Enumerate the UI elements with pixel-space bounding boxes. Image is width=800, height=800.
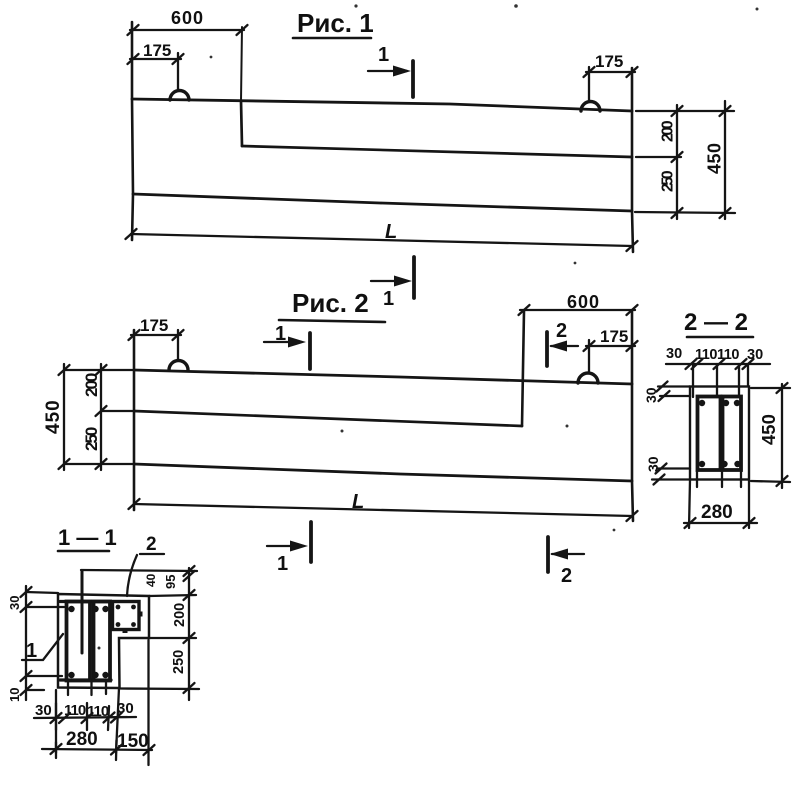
svg-text:1: 1 (378, 44, 389, 66)
sec22 title underline (687, 336, 753, 339)
fig2 600 dim line (520, 309, 635, 311)
svg-text:Рис. 1: Рис. 1 (297, 8, 374, 38)
fig1 600 label (171, 8, 204, 28)
sec11 right connectors (120, 595, 199, 689)
sec11 95 label (163, 575, 178, 589)
svg-text:600: 600 (171, 8, 204, 28)
fig1 L label (385, 221, 397, 243)
fig1 loop1 extension (177, 53, 179, 90)
fig2 flange bottom line (134, 411, 522, 426)
svg-text:110: 110 (695, 347, 717, 363)
svg-text:2: 2 (556, 320, 567, 342)
sec11 250 label (171, 650, 187, 674)
fig2 section mark 1 top: line+arrow (264, 341, 301, 343)
fig2 section mark 2 top: label (556, 320, 567, 342)
sec22 stirrup bottom stubs (697, 470, 741, 487)
sec11 leader 1 label (26, 640, 37, 662)
sec22 outline rect (690, 387, 749, 480)
svg-text:280: 280 (701, 502, 733, 523)
fig2 loop2 extension (588, 340, 590, 371)
sec22 title (684, 309, 748, 336)
sec22 280 label (701, 502, 733, 523)
fig1 lifting loop right (581, 102, 600, 112)
fig1 section mark 1 bottom: bar (412, 257, 416, 298)
svg-text:175: 175 (143, 41, 171, 60)
fig2 section mark 2 bottom: bar (546, 537, 550, 572)
fig1 200 label (660, 120, 677, 142)
svg-text:Рис. 2: Рис. 2 (292, 288, 369, 318)
fig1 beam bottom edge (133, 194, 632, 211)
fig2 L dim line (134, 504, 632, 516)
fig2 section mark 1 top: bar (308, 333, 312, 369)
svg-text:30: 30 (666, 346, 682, 362)
svg-text:30: 30 (645, 456, 661, 472)
sec11 bottom row1 tick stems (56, 703, 109, 730)
svg-text:250: 250 (660, 170, 677, 192)
fig1 section mark 1 top: line+arrow (368, 70, 407, 72)
sec22 top extension verticals (693, 364, 748, 397)
sec11 rebar stick-up line (81, 571, 84, 653)
fig2 200 label (82, 373, 101, 397)
fig2 section mark 1 bottom: label (277, 553, 288, 575)
fig1 section mark 1 bottom: label (383, 288, 394, 310)
svg-text:175: 175 (140, 316, 168, 335)
fig1 section mark 1 bottom: line+arrow (371, 280, 407, 282)
fig2 loop1 extension (177, 330, 179, 359)
sec11 title underline (58, 550, 109, 553)
fig1 250 label (660, 170, 677, 192)
fig1 175 right dim line (586, 71, 635, 73)
svg-text:450: 450 (705, 142, 725, 174)
sec22 left 30 top dim (658, 387, 690, 397)
sec11 leader 2 line (127, 554, 164, 596)
fig1 600 dim line (130, 29, 244, 31)
sec11 stirrup dots (68, 606, 108, 678)
fig2 title underline (279, 320, 385, 322)
sec11 bottom extension step (116, 688, 119, 753)
fig1 450 label (705, 142, 725, 174)
sec22 stirrup left (698, 397, 721, 471)
fig1 loop2 extension (588, 67, 590, 101)
sec11 stick-up level line (81, 570, 197, 571)
svg-text:1: 1 (275, 323, 286, 345)
sec11 bottom extension flange right (147, 640, 149, 765)
svg-text:L: L (385, 221, 397, 243)
fig2 175 right dim line (586, 345, 635, 347)
fig1 right connector top (636, 110, 734, 112)
sec11 left 10 label (7, 688, 22, 702)
fig1 right connector middle (636, 156, 681, 158)
fig1 section mark 1 top: bar (411, 61, 415, 97)
sec22 right connector bottom (751, 481, 790, 482)
fig1 beam top edge (132, 99, 632, 111)
svg-text:30: 30 (7, 596, 22, 610)
svg-text:200: 200 (82, 373, 101, 397)
fig2 section mark 2 top: line+arrow (551, 345, 578, 347)
sec11 flange stirrup (113, 602, 140, 630)
sec22 280 dim line (684, 522, 757, 524)
svg-text:10: 10 (7, 688, 22, 702)
sec11 stirrup right cell (94, 602, 111, 681)
sec22 450 label (758, 414, 779, 445)
sec22 rebar dots (699, 400, 741, 467)
fig1 beam left edge (with extensions up to 600-dim and down to L-dim) (132, 22, 133, 240)
svg-text:L: L (352, 491, 364, 513)
fig2 step vertical (with extension up to 600 dim) (522, 311, 524, 426)
sec22 left 30 bottom dim (652, 469, 690, 480)
fig2 beam right edge (extended up to 600-dim and down to L-dim) (632, 311, 633, 521)
sec11 bottom row1 dim line (34, 717, 136, 718)
sec11 stirrup left cell (67, 602, 91, 681)
sec22 left 30 top label (643, 387, 659, 403)
fig1 section mark 1 top: label (378, 44, 389, 66)
fig2 600 label (567, 292, 600, 312)
sec11 40 label (144, 573, 158, 587)
svg-text:175: 175 (600, 327, 628, 346)
fig2 dim line 450 (63, 364, 65, 470)
svg-text:450: 450 (43, 399, 64, 434)
svg-text:450: 450 (758, 414, 779, 445)
scan specks (98, 4, 759, 649)
svg-text:1: 1 (383, 288, 394, 310)
sec11 left 30 label (7, 596, 22, 610)
fig2 section mark 2 bottom: label (561, 565, 572, 587)
fig2 450 label (43, 399, 64, 434)
sec22 stirrup right (723, 397, 742, 471)
fig2 L label (352, 491, 364, 513)
sec11 200 label (172, 603, 188, 627)
sec22 450 dim line (781, 384, 783, 488)
sec11 stirrup bottom stubs (68, 681, 106, 695)
fig2 beam left edge (extended up to 175-dim and down to L-dim) (133, 330, 136, 510)
sec22 bottom extensions (689, 480, 749, 528)
svg-text:175: 175 (595, 52, 623, 71)
svg-text:30: 30 (643, 387, 659, 403)
fig1 dim line 450 (724, 101, 726, 219)
sec11 flange stirrup dots (116, 605, 143, 633)
fig2 250 label (82, 427, 101, 451)
svg-text:600: 600 (567, 292, 600, 312)
sec11 bottom row2 tick stems (56, 740, 117, 760)
fig1 175 left label (143, 41, 171, 60)
svg-text:280: 280 (66, 729, 98, 750)
fig2 dim line 200/250 (100, 364, 102, 470)
svg-text:1: 1 (277, 553, 288, 575)
sec11 bottom row2 labels (66, 729, 149, 752)
fig2 left connector middle (101, 410, 134, 412)
fig1 title Рис. 1 (297, 8, 374, 38)
fig2 lifting loop left (169, 361, 188, 371)
svg-text:30: 30 (35, 702, 52, 719)
sec22 top dim line (666, 363, 770, 365)
fig1 L dim line (131, 234, 632, 246)
fig1 dim line 200/250 (676, 105, 678, 219)
svg-text:110: 110 (717, 347, 739, 363)
fig1 right connector bottom (635, 212, 735, 213)
sec11 stirrup bottom bar (60, 678, 111, 681)
sec22 right connector top (751, 387, 790, 389)
fig2 section mark 2 bottom: line+arrow (552, 553, 584, 555)
fig2 175 left dim line (131, 334, 181, 336)
sec11 outline (58, 594, 149, 688)
fig1 flange bottom line (242, 146, 632, 157)
svg-text:30: 30 (747, 347, 763, 363)
fig1 lifting loop left (170, 91, 189, 101)
svg-text:250: 250 (171, 650, 187, 674)
fig2 175 left label (140, 316, 168, 335)
fig2 lifting loop right (578, 373, 598, 383)
svg-text:40: 40 (144, 573, 158, 587)
fig2 section mark 1 top: label (275, 323, 286, 345)
fig2 beam top edge (134, 370, 632, 384)
svg-text:200: 200 (660, 120, 677, 142)
fig1 step vertical (241, 101, 242, 146)
fig2 left connector top (64, 369, 134, 371)
sec22 left 30 bottom label (645, 456, 661, 472)
fig2 section mark 1 bottom: line+arrow (267, 545, 303, 547)
svg-text:2: 2 (561, 565, 572, 587)
svg-text:2: 2 (146, 534, 157, 555)
sec11 bottom extension left edge (55, 690, 57, 753)
svg-text:250: 250 (82, 427, 101, 451)
fig1 beam right edge (extended up to 175-dim and down to L-dim) (632, 68, 633, 252)
fig1 title underline (293, 37, 371, 40)
sec11 bottom row2 dim line (42, 749, 152, 750)
fig2 beam bottom edge (134, 464, 632, 481)
sec11 left connectors (26, 592, 64, 690)
svg-text:1: 1 (26, 640, 37, 662)
svg-text:1 — 1: 1 — 1 (58, 525, 117, 550)
fig2 title Рис. 2 (292, 288, 369, 318)
sec22 top labels 30 110 110 30 (666, 346, 763, 363)
fig2 section mark 1 bottom: bar (309, 522, 313, 562)
svg-text:95: 95 (163, 575, 178, 589)
sec11 stirrup top bar (60, 600, 110, 603)
sec11 bottom row1 labels (35, 700, 134, 720)
sec11 title (58, 525, 117, 550)
sec11 leader 2 label (146, 534, 157, 555)
fig2 section mark 2 top: bar (545, 332, 549, 366)
svg-text:200: 200 (172, 603, 188, 627)
fig1 step dim extension vertical (241, 27, 242, 101)
sec11 leader 1 line (22, 634, 63, 660)
sec11 left dim line (25, 586, 27, 700)
fig1 175 right label (595, 52, 623, 71)
svg-text:2 — 2: 2 — 2 (684, 309, 748, 336)
fig2 left connector bottom (64, 463, 134, 465)
fig2 175 right label (600, 327, 628, 346)
fig1 175 left dim line (130, 58, 181, 60)
sec11 right dim line (188, 568, 190, 700)
